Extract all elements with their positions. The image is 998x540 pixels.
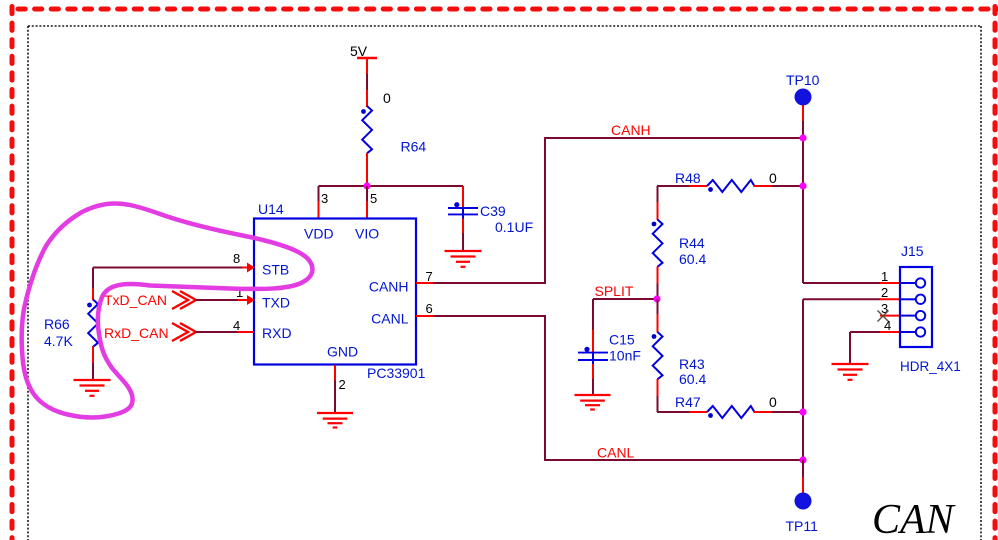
wire STB to R66 <box>92 268 94 301</box>
wire C39 to ground <box>462 219 464 251</box>
annotation magenta loop <box>22 204 313 418</box>
svg-text:J15: J15 <box>901 243 924 259</box>
capacitor C39 0.1UF <box>448 202 533 235</box>
svg-text:0: 0 <box>769 394 777 410</box>
capacitor C15 10nF <box>578 332 641 365</box>
svg-text:TXD: TXD <box>262 295 290 311</box>
wire J15 pin4 <box>850 318 916 363</box>
svg-text:CANL: CANL <box>371 311 409 327</box>
resistor R47 value 0 <box>657 394 803 418</box>
svg-text:4.7K: 4.7K <box>44 333 73 349</box>
resistor R64 value 0 <box>361 90 426 155</box>
wire right bus upper <box>802 138 804 283</box>
svg-text:CANH: CANH <box>369 279 409 295</box>
svg-text:0: 0 <box>769 170 777 186</box>
wire SPLIT to R43 <box>657 299 659 315</box>
svg-text:RxD_CAN: RxD_CAN <box>104 325 169 341</box>
svg-text:6: 6 <box>426 301 433 316</box>
junction R47 right <box>799 408 806 415</box>
wire R43 to R47 <box>657 379 659 396</box>
svg-text:5: 5 <box>370 191 377 206</box>
svg-text:7: 7 <box>426 269 433 284</box>
pin 5 stub <box>367 186 377 219</box>
power symbol 5V <box>350 43 377 59</box>
test point TP11 <box>786 460 819 534</box>
pin 8 STB wire <box>93 251 255 273</box>
wire J15 pin2 <box>803 285 916 300</box>
svg-text:CANL: CANL <box>597 445 635 461</box>
test point TP10 <box>786 72 820 138</box>
svg-text:STB: STB <box>262 262 289 278</box>
svg-text:60.4: 60.4 <box>679 251 706 267</box>
junction CANH/TP10 <box>799 134 806 141</box>
ground under C39 <box>445 251 482 267</box>
svg-text:10nF: 10nF <box>609 348 641 364</box>
node SPLIT <box>593 283 658 299</box>
junction CANL/TP11 <box>799 456 806 463</box>
svg-text:GND: GND <box>327 344 358 360</box>
resistor R66 4.7K <box>44 300 98 350</box>
svg-text:R44: R44 <box>679 235 705 251</box>
svg-text:TP11: TP11 <box>786 518 819 534</box>
pin 2 GND wire <box>335 365 346 412</box>
svg-text:R43: R43 <box>679 356 705 372</box>
svg-text:R66: R66 <box>44 316 70 332</box>
wire rail to C39 <box>462 186 464 208</box>
svg-text:3: 3 <box>321 191 328 206</box>
svg-text:PC33901: PC33901 <box>367 365 426 381</box>
svg-text:R64: R64 <box>401 139 427 155</box>
wire J15 pin1 <box>803 269 916 284</box>
svg-text:4: 4 <box>884 318 891 333</box>
svg-text:TxD_CAN: TxD_CAN <box>104 292 167 308</box>
svg-text:RXD: RXD <box>262 325 292 341</box>
svg-text:CAN: CAN <box>872 497 956 540</box>
wire CANH net <box>545 122 803 283</box>
resistor R43 60.4 <box>652 332 707 387</box>
svg-text:C39: C39 <box>480 203 506 219</box>
pin 1 TXD wire <box>196 285 255 305</box>
svg-text:VDD: VDD <box>304 226 334 242</box>
svg-text:U14: U14 <box>258 201 284 217</box>
ground under J15 pin4 <box>832 364 869 380</box>
wire VDD/VIO rail <box>319 185 464 187</box>
node TxD_CAN <box>104 291 196 309</box>
wire R44 to SPLIT <box>657 267 659 284</box>
svg-text:C15: C15 <box>609 332 635 348</box>
junction SPLIT <box>653 295 660 302</box>
svg-text:R48: R48 <box>675 170 701 186</box>
svg-text:VIO: VIO <box>355 226 379 242</box>
wire right bus lower <box>802 299 804 460</box>
connector J15 HDR_4X1 <box>900 243 961 374</box>
resistor R44 60.4 <box>652 220 707 268</box>
svg-text:0: 0 <box>383 90 391 106</box>
junction rail <box>363 182 370 189</box>
svg-text:SPLIT: SPLIT <box>595 283 634 299</box>
wire R48 to R44 <box>657 186 659 202</box>
svg-text:60.4: 60.4 <box>679 371 706 387</box>
svg-text:8: 8 <box>233 251 240 266</box>
wire R66 to ground <box>92 346 94 379</box>
wire 5V to R64 <box>366 58 368 107</box>
pin 7 CANH wire <box>416 269 546 284</box>
pin 6 CANL wire <box>416 301 546 316</box>
ground under R66 <box>74 380 111 396</box>
pin 3 stub <box>319 186 329 219</box>
ground under C15 <box>575 395 611 410</box>
svg-text:R47: R47 <box>675 394 701 410</box>
resistor R48 value 0 <box>657 170 803 192</box>
svg-text:4: 4 <box>233 318 240 333</box>
wire SPLIT to C15 <box>592 299 594 352</box>
svg-text:HDR_4X1: HDR_4X1 <box>900 359 961 374</box>
ground under U14 <box>317 413 353 428</box>
node RxD_CAN <box>104 323 196 341</box>
svg-text:1: 1 <box>881 269 888 284</box>
pin 4 RXD wire <box>196 318 254 333</box>
wire C15 to ground <box>592 364 594 394</box>
svg-text:TP10: TP10 <box>786 72 820 88</box>
svg-text:5V: 5V <box>350 43 368 59</box>
svg-text:2: 2 <box>339 377 346 392</box>
svg-text:CANH: CANH <box>611 122 651 138</box>
wire CANL net <box>545 316 803 461</box>
wire R64 to rail <box>366 153 368 186</box>
svg-text:2: 2 <box>881 285 888 300</box>
junction R48 right <box>799 182 806 189</box>
svg-text:0.1UF: 0.1UF <box>495 219 533 235</box>
IC U14 PC33901 CAN transceiver <box>254 201 426 381</box>
pin3 stub no-connect <box>878 301 916 322</box>
